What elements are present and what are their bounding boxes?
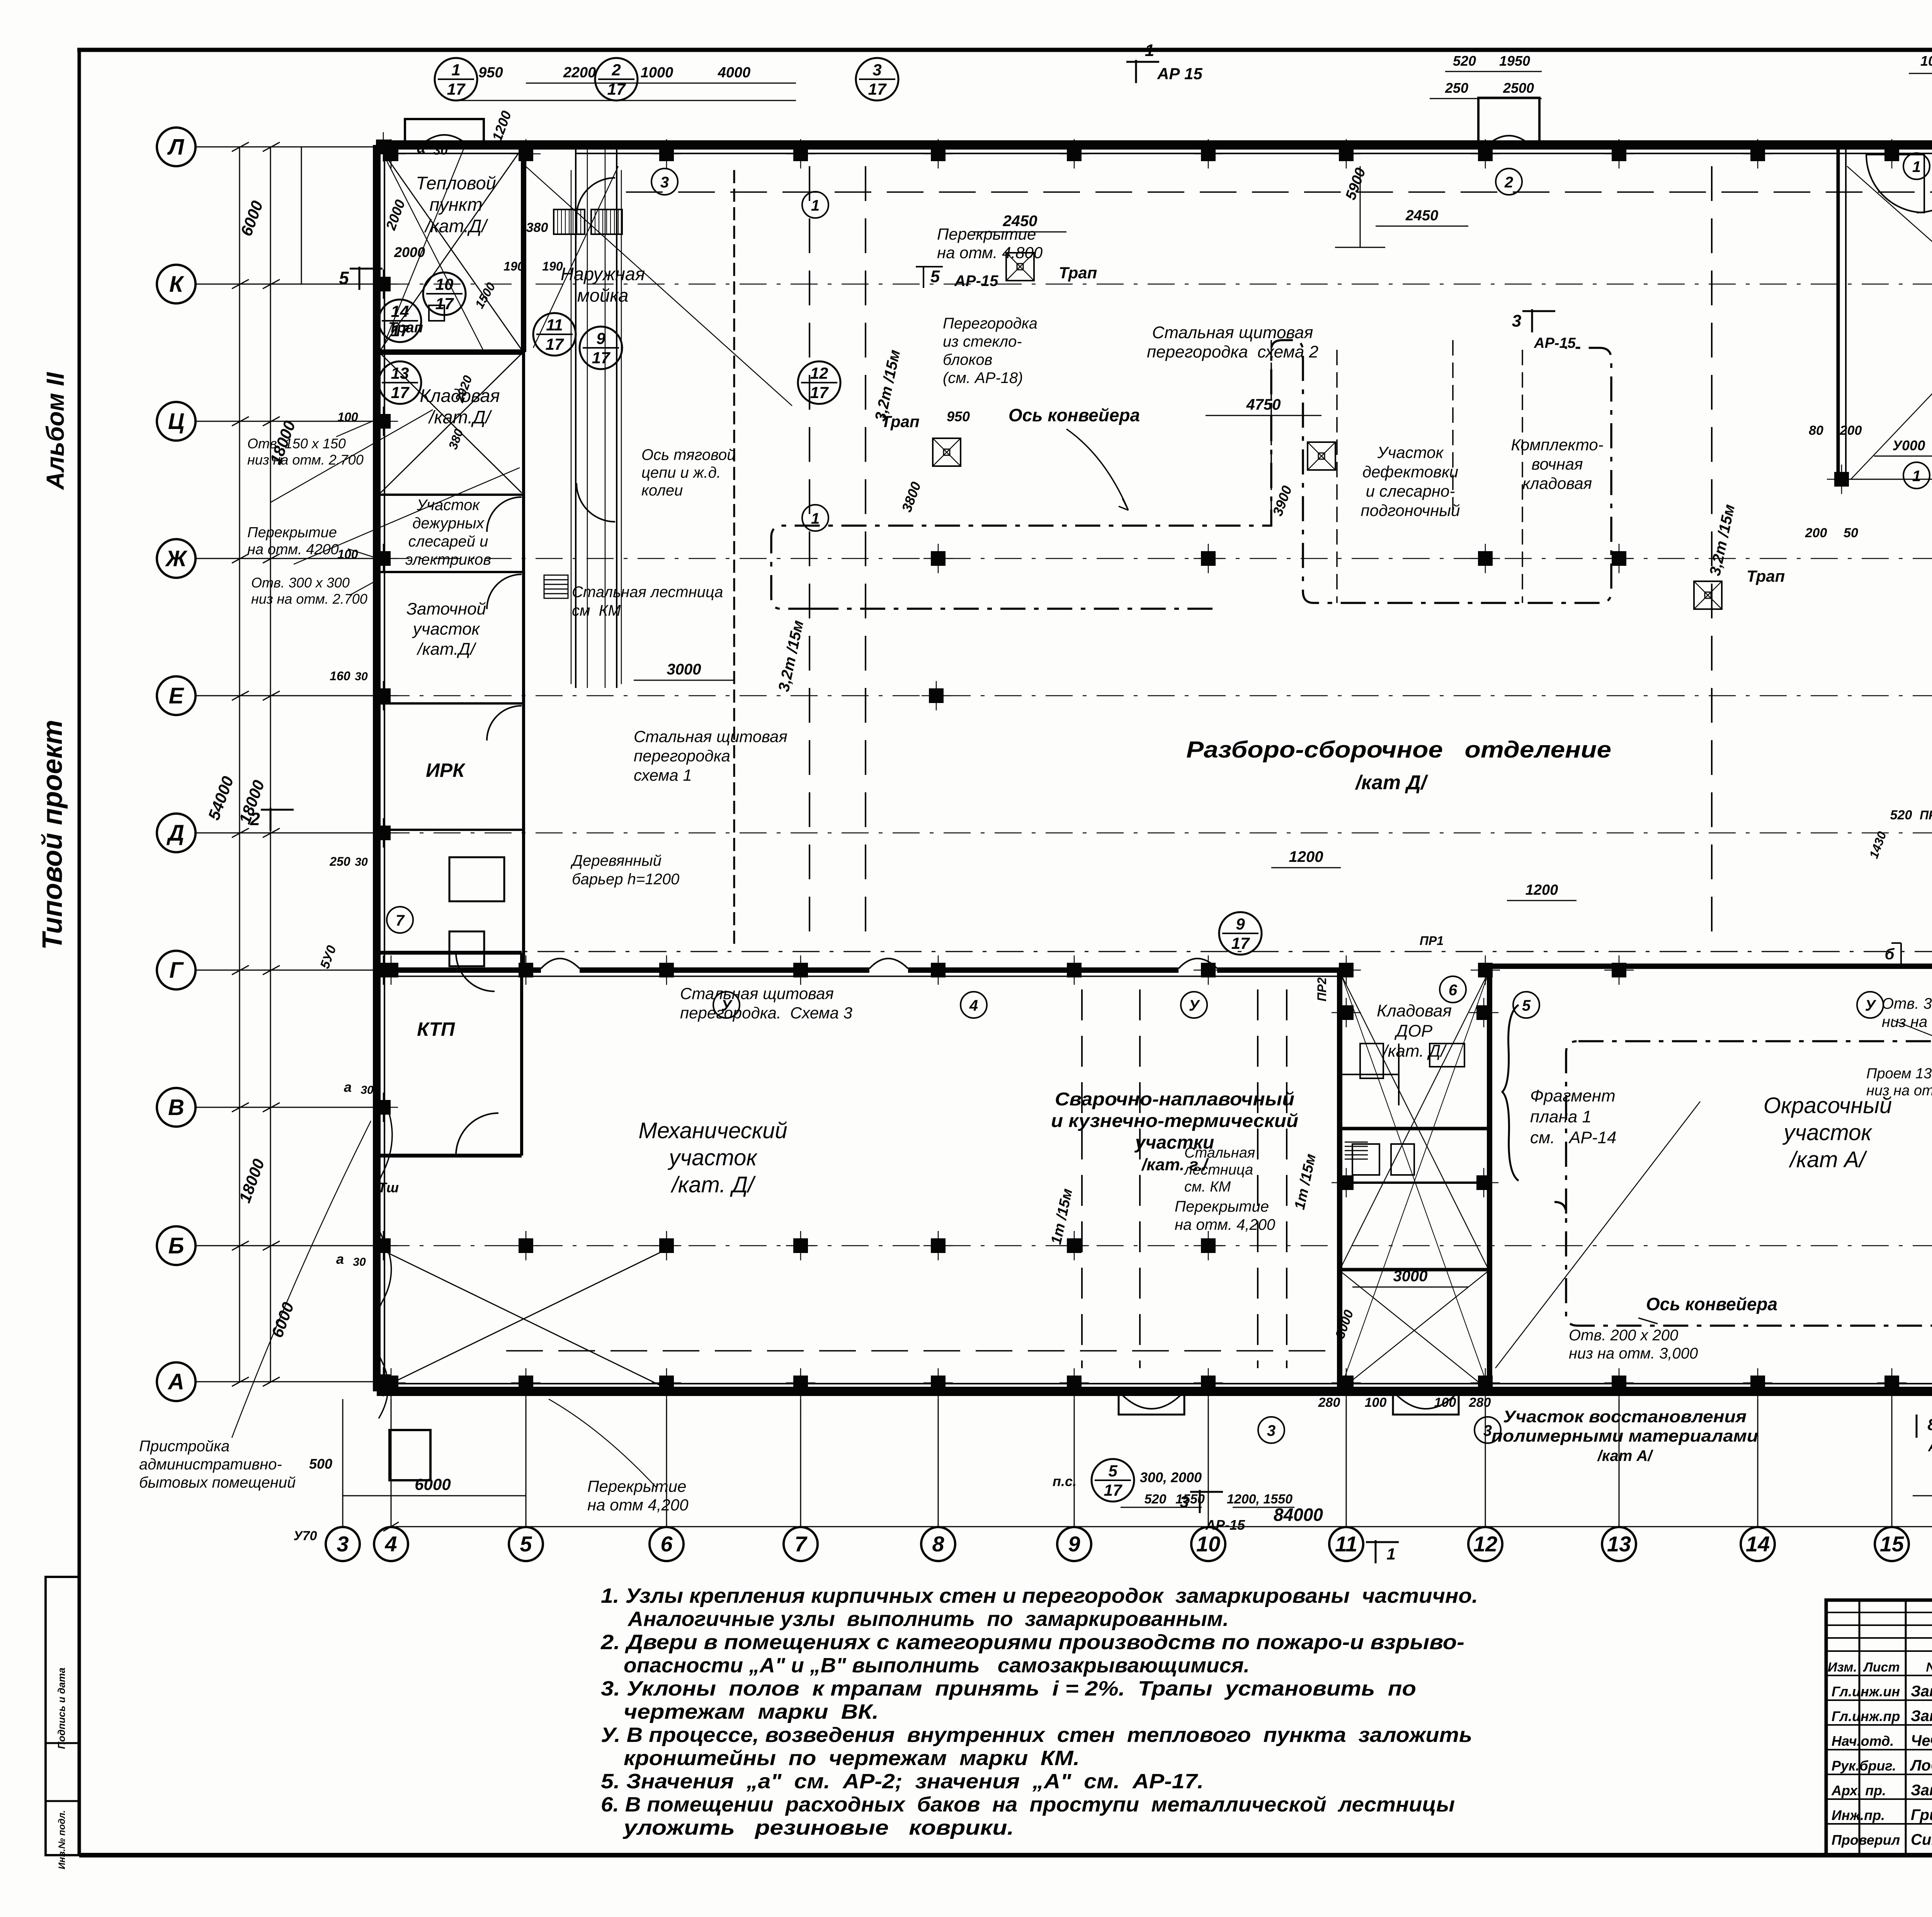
- free column axis 8 row Ж: [931, 551, 946, 566]
- top dim chain left: [526, 83, 796, 84]
- column axis 7 on Г wall: [793, 963, 808, 977]
- rail hatch grille right: [591, 209, 622, 234]
- svg-text:Отв. 325 х 325: Отв. 325 х 325: [1882, 995, 1932, 1012]
- axis 12 leader line: [1485, 1399, 1486, 1528]
- svg-text:2200: 2200: [563, 65, 596, 81]
- column axis 13 on Г wall: [1612, 963, 1626, 977]
- axis 4 leader line: [391, 1399, 392, 1528]
- svg-text:перегородка. Схема 3: перегородка. Схема 3: [680, 1004, 852, 1022]
- svg-text:Грибанова: Грибанова: [1911, 1806, 1932, 1823]
- axis 3 leader line: [342, 1399, 344, 1528]
- svg-text:17: 17: [1104, 1481, 1122, 1499]
- node circle У: [1857, 992, 1883, 1018]
- svg-text:/кат А/: /кат А/: [1789, 1147, 1868, 1172]
- svg-text:2. Двери в помещениях с катего: 2. Двери в помещениях с категориями прои…: [600, 1631, 1464, 1654]
- svg-text:3: 3: [1267, 1422, 1276, 1439]
- column axis 9 bottom wall: [1067, 1376, 1082, 1390]
- svg-text:13: 13: [1607, 1532, 1631, 1556]
- svg-text:А: А: [167, 1369, 184, 1394]
- wall Г axis segment 3150-3467: [1217, 967, 1340, 973]
- svg-text:участок: участок: [667, 1145, 758, 1170]
- svg-text:3: 3: [660, 174, 669, 191]
- left dim tick Е: [232, 691, 249, 700]
- column axis 14 bottom wall: [1750, 1376, 1765, 1390]
- grid bubble axis Ц: [157, 402, 196, 441]
- svg-text:У: У: [721, 997, 733, 1014]
- svg-text:17: 17: [810, 383, 829, 402]
- axis 15 leader line: [1891, 1399, 1893, 1528]
- bottom door arc at 2980: [1119, 1391, 1184, 1415]
- free column axis 5 row Б: [519, 1238, 533, 1253]
- detail bubble 3/17: [856, 58, 898, 100]
- title sig column x=4812: [1859, 1600, 1861, 1855]
- svg-text:на отм. 4200: на отм. 4200: [247, 541, 339, 558]
- conveyor loop mid line: [813, 608, 1213, 610]
- column axis 4 bottom wall: [384, 1376, 398, 1390]
- svg-text:17: 17: [435, 295, 454, 313]
- svg-text:Фрагмент: Фрагмент: [1530, 1086, 1616, 1105]
- svg-text:50: 50: [1844, 526, 1858, 540]
- svg-text:участок: участок: [412, 620, 481, 638]
- svg-text:Заточной: Заточной: [406, 599, 486, 618]
- svg-text:схема 1: схема 1: [634, 766, 692, 784]
- svg-text:низ на 3,500: низ на 3,500: [1882, 1013, 1932, 1030]
- leader пристройка: [232, 1121, 371, 1438]
- grid bubble axis Г: [157, 951, 196, 989]
- svg-text:6. В помещении расходных бак: 6. В помещении расходных баков на просту…: [601, 1793, 1455, 1816]
- grid bubble axis К: [157, 265, 196, 303]
- left dim tick К: [232, 279, 249, 289]
- svg-text:ПР1: ПР1: [1420, 934, 1444, 948]
- svg-text:/кат. Д/: /кат. Д/: [670, 1172, 756, 1197]
- left dim chain line a: [239, 147, 240, 1382]
- trap in hall left: [933, 438, 961, 466]
- node circle 7: [387, 907, 413, 933]
- svg-text:участок: участок: [1782, 1120, 1872, 1145]
- axis Ж leader line: [194, 558, 379, 559]
- svg-text:Проверил: Проверил: [1832, 1832, 1900, 1848]
- svg-text:Лист: Лист: [1862, 1660, 1900, 1675]
- axis 12 tick below wall: [1485, 1391, 1486, 1415]
- detail bubble 5/17: [1092, 1459, 1134, 1502]
- svg-text:30: 30: [355, 670, 368, 683]
- svg-text:см КМ: см КМ: [572, 602, 621, 619]
- grid bubble axis 12: [1468, 1527, 1502, 1561]
- svg-text:190: 190: [503, 259, 524, 273]
- section mark 2 left: [270, 808, 272, 831]
- detail bubble 13/17: [379, 361, 421, 404]
- door arc corridor top: [577, 178, 615, 216]
- column axis Е left wall: [376, 688, 391, 703]
- node circle 2: [1496, 169, 1522, 195]
- column axis 6 bottom wall: [659, 1376, 674, 1390]
- svg-text:Инж.пр.: Инж.пр.: [1832, 1807, 1885, 1823]
- svg-text:10: 10: [1196, 1532, 1220, 1556]
- column axis 11 bottom wall: [1339, 1376, 1354, 1390]
- rail track lines: [575, 145, 577, 688]
- svg-text:(см. АР-18): (см. АР-18): [943, 369, 1023, 386]
- svg-text:250: 250: [1445, 80, 1468, 96]
- svg-text:низ на отм. 2.700: низ на отм. 2.700: [251, 591, 367, 607]
- detail bubble 9/17: [580, 327, 622, 369]
- svg-text:АР-15: АР-15: [1534, 335, 1576, 351]
- axis Б leader line: [194, 1245, 379, 1246]
- diagonal cross Тепловой пункт: [381, 149, 522, 350]
- svg-text:Трап: Трап: [881, 412, 919, 431]
- svg-text:перегородка схема 2: перегородка схема 2: [1147, 342, 1318, 361]
- crane rail dashes lower hall 2: [1257, 989, 1259, 1368]
- left dim tick Б: [232, 1241, 249, 1250]
- svg-text:280: 280: [1469, 1395, 1491, 1410]
- svg-text:Отв. 150 х 150: Отв. 150 х 150: [247, 436, 346, 451]
- diagonal cross Кладовая: [381, 354, 522, 493]
- axis a dashed line below Л: [626, 191, 1932, 193]
- svg-text:на отм. 4.800: на отм. 4.800: [937, 243, 1043, 262]
- trap тепловой: [429, 305, 444, 321]
- column axis 12 top wall: [1478, 146, 1493, 161]
- axis В leader line: [194, 1107, 379, 1108]
- wall КТП bottom: [377, 1154, 522, 1158]
- axis 8 leader line: [938, 1399, 939, 1528]
- stair symbol ДОР: [1345, 1142, 1368, 1143]
- left dim chain line c: [301, 147, 302, 284]
- svg-text:3: 3: [1483, 1422, 1492, 1439]
- dim 1200 ДОР: [1507, 900, 1577, 901]
- svg-text:/кат.Д/: /кат.Д/: [424, 216, 488, 236]
- crane rail dashes upper hall: [809, 166, 810, 947]
- column axis Ж left wall: [376, 551, 391, 566]
- svg-text:a: a: [336, 1251, 344, 1267]
- svg-text:Перекрытие: Перекрытие: [937, 225, 1036, 243]
- svg-text:1: 1: [1912, 468, 1921, 485]
- svg-text:У: У: [1189, 997, 1200, 1014]
- wall Г axis segment right: [1490, 964, 1932, 969]
- svg-text:17: 17: [391, 383, 410, 402]
- svg-text:1000: 1000: [1920, 53, 1932, 69]
- title sig column x=4932: [1905, 1600, 1907, 1855]
- axis Г dash-dot line: [384, 951, 1932, 952]
- svg-text:5: 5: [520, 1532, 532, 1556]
- free column axis 9 row Б: [1067, 1238, 1082, 1253]
- КТП door recess: [449, 857, 504, 901]
- grid bubble axis 13: [1602, 1527, 1636, 1561]
- page frame bottom border: [79, 1853, 1932, 1857]
- svg-text:административно-: административно-: [139, 1456, 282, 1473]
- wall Г inner line: [377, 976, 1340, 977]
- node circle 3: [1258, 1417, 1284, 1443]
- svg-text:Участок: Участок: [1377, 443, 1444, 461]
- svg-text:уложить резиновые коврики.: уложить резиновые коврики.: [622, 1816, 1014, 1839]
- axis Ж dash-dot line: [383, 558, 1932, 559]
- section mark 1 top: [1135, 60, 1137, 83]
- stair symbol left: [544, 575, 568, 576]
- node circle 1: [802, 505, 828, 531]
- column axis 7 bottom wall: [793, 1376, 808, 1390]
- page frame top border: [77, 48, 1932, 52]
- partition left column y=1820: [377, 702, 524, 705]
- svg-text:3000: 3000: [667, 661, 701, 678]
- left dim tick А: [232, 1377, 249, 1386]
- axis 5 tick below wall: [526, 1391, 527, 1415]
- svg-text:вочная: вочная: [1531, 455, 1583, 473]
- column axis 5 bottom wall: [519, 1376, 533, 1390]
- trap label 3 dim: [1206, 415, 1321, 416]
- grid bubble axis 15: [1875, 1527, 1909, 1561]
- outer wall bottom inner line: [377, 1383, 1932, 1384]
- door arc on Г wall at 2300: [869, 958, 908, 969]
- column axis 4 top wall: [384, 146, 398, 161]
- free column axis 13 row Ж: [1612, 551, 1626, 566]
- svg-text:/кат А/: /кат А/: [1597, 1447, 1654, 1464]
- svg-text:кладовая: кладовая: [1522, 474, 1592, 492]
- free column axis 10 row Б: [1201, 1238, 1216, 1253]
- entrance porch axis 3-4: [405, 119, 484, 145]
- axis Д dash-dot line: [383, 833, 1932, 834]
- svg-text:3: 3: [872, 61, 881, 79]
- glass block partition: [733, 170, 735, 947]
- trap square 2450 dim: [974, 232, 1066, 233]
- bottom dim ticks: [383, 1522, 399, 1531]
- axis 9 tick below wall: [1074, 1391, 1075, 1415]
- free column axis 7 row Б: [793, 1238, 808, 1253]
- column axis 9 top wall: [1067, 146, 1082, 161]
- ДОР partition 3: [1340, 1268, 1490, 1272]
- svg-text:100: 100: [337, 410, 358, 424]
- title sig row y=4591: [1826, 1774, 1932, 1775]
- title sig row y=4238: [1826, 1637, 1932, 1639]
- axis a dashed line above А: [506, 1350, 1337, 1352]
- column axis 5 on Г wall: [519, 963, 533, 977]
- svg-text:Пристройка: Пристройка: [139, 1438, 230, 1455]
- svg-text:4: 4: [384, 1532, 397, 1556]
- svg-text:Перекрытие: Перекрытие: [1175, 1198, 1269, 1215]
- svg-text:Отв. 200 х 200: Отв. 200 х 200: [1569, 1327, 1678, 1344]
- grid bubble axis Ж: [157, 539, 196, 578]
- svg-text:электриков: электриков: [405, 551, 491, 568]
- svg-text:Закрочимский: Закрочимский: [1911, 1708, 1932, 1725]
- column axis Г left wall: [376, 963, 391, 977]
- svg-text:Деревянный: Деревянный: [570, 852, 662, 869]
- svg-text:Отв. 300 х 300: Отв. 300 х 300: [251, 575, 350, 591]
- svg-text:на отм. 4,200: на отм. 4,200: [1175, 1216, 1275, 1233]
- svg-text:1200, 1550: 1200, 1550: [1227, 1492, 1293, 1507]
- svg-text:низ на отм. 2000: низ на отм. 2000: [1866, 1083, 1932, 1099]
- left dim tick Ц: [232, 417, 249, 426]
- grid bubble axis 4: [374, 1527, 408, 1561]
- node circle 5: [1513, 992, 1539, 1018]
- trap right hall: [1694, 581, 1722, 609]
- wall left column vertical: [522, 352, 525, 970]
- stamp box divider 1: [46, 1742, 79, 1744]
- svg-text:слесарей и: слесарей и: [408, 533, 488, 550]
- svg-text:100: 100: [1365, 1395, 1387, 1410]
- svg-text:12: 12: [1473, 1532, 1497, 1556]
- bottom dim 6000 segment: [343, 1495, 526, 1496]
- svg-text:/кат. Д/: /кат. Д/: [1382, 1042, 1447, 1061]
- column axis 10 on Г wall: [1201, 963, 1216, 977]
- left dim tick В: [232, 1103, 249, 1112]
- svg-text:опасности „А" и „В" выполнить: опасности „А" и „В" выполнить самозакрыв…: [624, 1654, 1250, 1677]
- left dim tick Л: [232, 142, 249, 152]
- column axis 4 on Г wall: [384, 963, 398, 977]
- partition left column y=2147: [377, 829, 524, 831]
- door arc on Г wall at 3100: [1179, 958, 1217, 969]
- svg-text:АР-15: АР-15: [1205, 1517, 1245, 1533]
- bottom door arc at 3690: [1393, 1391, 1459, 1415]
- grid bubble axis 3: [326, 1527, 360, 1561]
- svg-text:№ докум.: № докум.: [1926, 1660, 1932, 1675]
- svg-text:14: 14: [1746, 1532, 1770, 1556]
- detail bubble 12/17: [798, 361, 840, 404]
- svg-text:Гл.инж.пр: Гл.инж.пр: [1832, 1708, 1900, 1724]
- svg-text:1200: 1200: [1289, 848, 1323, 865]
- column axis Ц left wall: [376, 414, 391, 429]
- svg-text:4000: 4000: [718, 65, 751, 81]
- svg-text:380: 380: [526, 220, 548, 235]
- column axis Д left wall: [376, 826, 391, 840]
- svg-text:Е: Е: [169, 683, 185, 708]
- wall Г axis segment 2350-3050: [908, 967, 1179, 973]
- outer wall bottom: [377, 1387, 1932, 1396]
- axis 6 leader line: [666, 1399, 667, 1528]
- axis Е dash-dot line: [383, 695, 1932, 696]
- axis 10 tick below wall: [1208, 1391, 1209, 1415]
- column axis 12 on Г wall: [1478, 963, 1493, 977]
- svg-text:Перекрытие: Перекрытие: [247, 524, 337, 541]
- svg-text:Перегородка: Перегородка: [943, 315, 1037, 332]
- svg-text:5: 5: [1522, 997, 1531, 1014]
- column axis 6 on Г wall: [659, 963, 674, 977]
- svg-text:4750: 4750: [1246, 396, 1281, 413]
- svg-text:Участок: Участок: [417, 497, 481, 514]
- title sig row y=4399: [1826, 1699, 1932, 1701]
- partition left column y=1280: [377, 494, 524, 496]
- column axis Б left wall: [376, 1238, 391, 1253]
- svg-text:6: 6: [660, 1532, 673, 1556]
- svg-text:7: 7: [794, 1532, 808, 1556]
- dim 520 1550 bottom: [1121, 1507, 1202, 1508]
- svg-text:17: 17: [546, 335, 564, 353]
- dim 3000 left mid: [634, 680, 734, 681]
- svg-text:30: 30: [355, 856, 368, 868]
- svg-text:520: 520: [1145, 1492, 1167, 1507]
- svg-text:Типовой проект: Типовой проект: [37, 720, 68, 950]
- section mark 3 bottom: [1199, 1490, 1201, 1513]
- svg-text:Инв.№ подл.: Инв.№ подл.: [57, 1810, 67, 1869]
- WC fixtures: [1352, 1144, 1379, 1175]
- axis 14 leader line: [1757, 1399, 1759, 1528]
- axis 6 tick below wall: [666, 1391, 667, 1415]
- crane rail dashes lower hall 1: [1081, 989, 1083, 1368]
- axis 5 leader line: [526, 1399, 527, 1528]
- svg-text:2450: 2450: [1405, 208, 1439, 224]
- outer wall left inner line: [384, 145, 385, 1391]
- svg-text:мойка: мойка: [577, 285, 629, 305]
- title sig row y=4719: [1826, 1823, 1932, 1825]
- dashed partition upper hall 1: [1270, 340, 1272, 518]
- grid bubble axis 9: [1057, 1527, 1091, 1561]
- svg-text:В: В: [168, 1095, 184, 1120]
- axis К dash-dot line: [383, 284, 1932, 285]
- svg-text:100: 100: [1434, 1395, 1456, 1410]
- brace Фрагмент 1: [1502, 1005, 1519, 1181]
- svg-text:9: 9: [596, 329, 605, 347]
- svg-text:17: 17: [592, 349, 611, 367]
- svg-text:блоков: блоков: [943, 351, 992, 368]
- ДОР diagonal marks: [1340, 970, 1490, 1391]
- svg-text:Рук.бриг.: Рук.бриг.: [1832, 1758, 1896, 1774]
- node circle 6: [1440, 976, 1466, 1003]
- svg-text:11: 11: [546, 316, 563, 334]
- bottom right dim line: [1913, 1495, 1932, 1496]
- door arc КТП: [456, 1113, 498, 1156]
- axis Д leader line: [194, 833, 379, 834]
- svg-text:80: 80: [1809, 423, 1823, 438]
- svg-text:К: К: [169, 272, 184, 297]
- grid bubble axis 6: [650, 1527, 684, 1561]
- left dim tick Ж: [232, 554, 249, 563]
- svg-text:4: 4: [969, 997, 978, 1014]
- partition left column y=1480: [377, 571, 524, 573]
- door arc on Г wall at 1450: [541, 958, 580, 969]
- svg-text:5: 5: [339, 268, 349, 288]
- svg-text:У70: У70: [294, 1529, 317, 1543]
- svg-text:17: 17: [868, 80, 887, 98]
- svg-text:пункт: пункт: [429, 194, 482, 215]
- axis Г leader line: [194, 970, 379, 971]
- svg-text:У000: У000: [1893, 438, 1925, 453]
- axis 10 leader line: [1208, 1399, 1209, 1528]
- rail hatch grille left: [554, 209, 585, 234]
- svg-text:Лободко: Лободко: [1910, 1757, 1932, 1774]
- column axis А left wall: [376, 1374, 391, 1389]
- svg-text:АР-15: АР-15: [954, 272, 998, 289]
- column axis 6 top wall: [659, 146, 674, 161]
- svg-text:2500: 2500: [1503, 80, 1534, 96]
- node circle У: [1181, 992, 1207, 1018]
- svg-text:ПРЗ: ПРЗ: [1920, 808, 1932, 822]
- svg-text:дефектовки: дефектовки: [1362, 463, 1458, 481]
- axis 9 leader line: [1074, 1399, 1075, 1528]
- svg-text:200: 200: [1805, 526, 1827, 540]
- svg-text:a: a: [344, 1079, 352, 1095]
- svg-text:цепи и ж.д.: цепи и ж.д.: [641, 464, 721, 481]
- svg-text:1: 1: [451, 61, 460, 79]
- diagonal leader мойка: [526, 166, 792, 406]
- svg-text:Разборо-сборочное отделение: Разборо-сборочное отделение: [1186, 737, 1611, 763]
- small squares ИРК area: [449, 931, 484, 966]
- svg-text:1: 1: [1386, 1545, 1395, 1563]
- column axis 12 bottom wall: [1478, 1376, 1493, 1390]
- column axis 8 bottom wall: [931, 1376, 946, 1390]
- svg-text:1: 1: [1145, 41, 1154, 60]
- svg-text:300, 2000: 300, 2000: [1140, 1469, 1202, 1485]
- svg-text:9: 9: [1236, 915, 1245, 933]
- column axis 5 top wall: [519, 146, 533, 161]
- svg-text:520: 520: [1890, 808, 1912, 822]
- grid bubble axis 11: [1329, 1527, 1363, 1561]
- dashed partition upper hall 2: [1452, 340, 1454, 518]
- svg-text:Трап: Трап: [1059, 264, 1097, 282]
- axis 8 tick below wall: [938, 1391, 939, 1415]
- svg-text:3: 3: [1512, 312, 1521, 330]
- svg-text:2: 2: [611, 61, 621, 79]
- grid bubble axis 10: [1191, 1527, 1225, 1561]
- detail bubble 1/17: [435, 58, 477, 100]
- axis 11 leader line: [1346, 1399, 1347, 1528]
- wall Г axis segment 975-1400: [377, 967, 541, 973]
- dim 5900 vertical line: [1360, 166, 1361, 247]
